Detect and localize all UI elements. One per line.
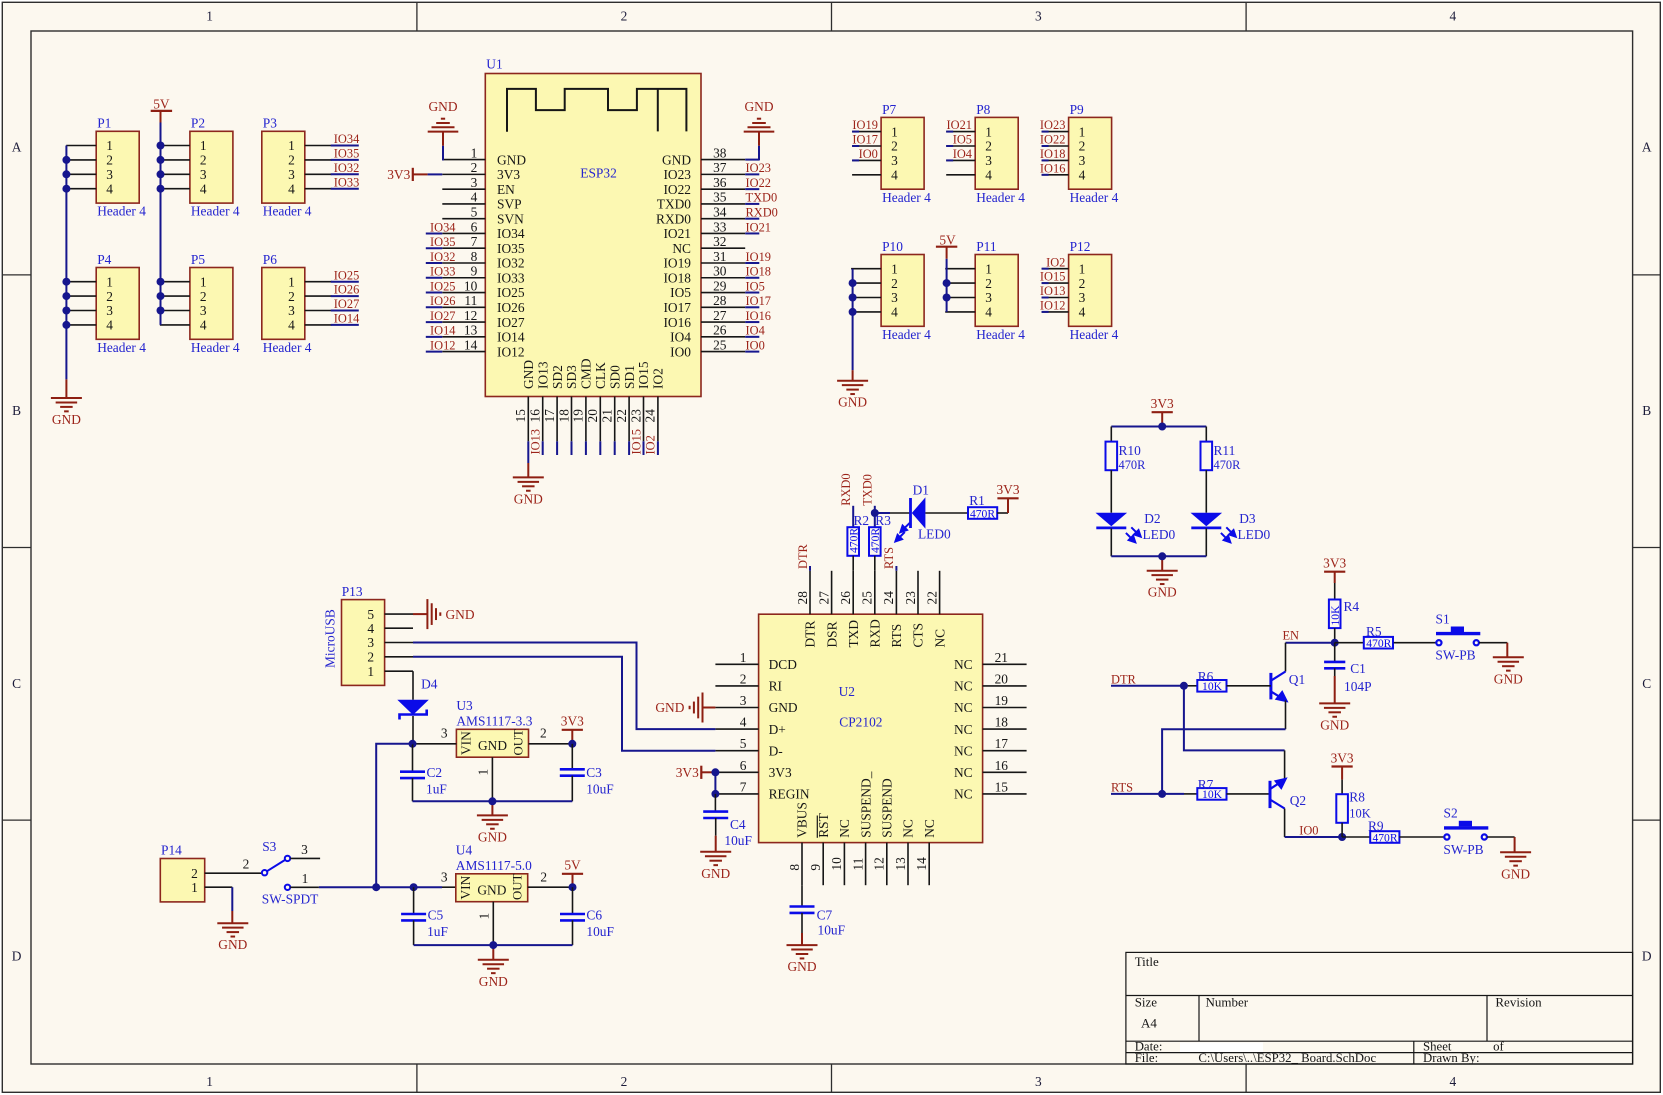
- net label IO14: [331, 324, 359, 326]
- net label TXD0: [745, 203, 759, 205]
- svg-text:Header 4: Header 4: [97, 340, 146, 355]
- P7 pin 2: [852, 145, 881, 147]
- svg-text:3: 3: [441, 726, 448, 741]
- switch S2 SW-PB: [1444, 834, 1487, 839]
- svg-text:24: 24: [881, 591, 896, 605]
- svg-text:NC: NC: [954, 743, 973, 758]
- svg-text:2: 2: [985, 139, 992, 154]
- junction dots P1-P4 bus: [62, 156, 70, 164]
- U4 pin 1 wire: [492, 902, 494, 945]
- svg-text:DTR: DTR: [803, 621, 818, 648]
- power port 3V3 at R1: [997, 497, 1018, 499]
- U2 pin 27 DSR: [831, 571, 833, 614]
- U1 pin 1 GND: [442, 159, 485, 161]
- svg-text:ESP32: ESP32: [580, 166, 616, 181]
- svg-text:P8: P8: [976, 102, 990, 117]
- transistor Q2: [1269, 781, 1272, 808]
- wire U1 pin15 to ground: [527, 441, 529, 463]
- wire stem to ground: [1161, 556, 1163, 570]
- svg-text:4: 4: [106, 318, 113, 333]
- svg-text:R3: R3: [875, 513, 891, 528]
- svg-text:IO12: IO12: [430, 338, 455, 352]
- U2 pin 5 D-: [715, 750, 758, 752]
- svg-text:GND: GND: [787, 959, 816, 974]
- S3 pin 1 wire: [290, 886, 319, 888]
- wire R5 to S1: [1394, 642, 1437, 644]
- svg-text:4: 4: [985, 168, 992, 183]
- svg-text:GND: GND: [497, 152, 526, 167]
- svg-text:C1: C1: [1350, 661, 1366, 676]
- svg-text:9: 9: [808, 864, 823, 871]
- svg-text:GND: GND: [838, 395, 867, 410]
- U1 pin 27 IO16: [701, 321, 745, 323]
- net label IO19: [852, 131, 859, 133]
- svg-text:TXD: TXD: [846, 620, 861, 648]
- wire stem red to ground: [852, 370, 854, 381]
- svg-text:4: 4: [106, 181, 113, 196]
- svg-text:1: 1: [302, 871, 309, 886]
- svg-text:IO34: IO34: [334, 132, 359, 146]
- svg-text:34: 34: [713, 204, 727, 219]
- svg-text:Header 4: Header 4: [263, 340, 312, 355]
- svg-text:20: 20: [585, 409, 600, 423]
- ground GND below P4: [51, 398, 82, 411]
- svg-text:29: 29: [713, 278, 727, 293]
- P5 pin 2: [160, 295, 190, 297]
- power port 3V3 at U1 pin2: [412, 168, 414, 181]
- svg-text:8: 8: [787, 864, 802, 871]
- svg-text:IO14: IO14: [497, 330, 525, 345]
- svg-text:SD3: SD3: [564, 365, 579, 389]
- transistor Q1: [1269, 673, 1272, 700]
- U2 pin 9 RST: [822, 843, 824, 886]
- svg-text:1: 1: [367, 664, 374, 679]
- svg-text:3V3: 3V3: [996, 482, 1019, 497]
- U1 pin 14 IO12: [442, 351, 485, 353]
- wire 5V bus P11: [946, 259, 948, 312]
- svg-text:IO16: IO16: [746, 309, 771, 323]
- svg-text:C7: C7: [817, 908, 833, 923]
- svg-text:GND: GND: [1148, 585, 1177, 600]
- junction dot U4 OUT: [569, 883, 577, 891]
- svg-text:27: 27: [816, 591, 831, 605]
- net label IO23: [1042, 131, 1049, 133]
- net label IO25: [426, 292, 443, 294]
- svg-text:CTS: CTS: [911, 623, 926, 648]
- svg-text:RI: RI: [769, 679, 782, 694]
- wire S3 to U4 VIN: [319, 886, 442, 888]
- ground GND below U4: [478, 960, 509, 973]
- svg-text:IO0: IO0: [859, 147, 878, 161]
- svg-text:2: 2: [540, 726, 547, 741]
- svg-text:NC: NC: [922, 819, 937, 838]
- svg-text:Revision: Revision: [1495, 994, 1542, 1009]
- P7 pin 4: [852, 174, 881, 176]
- wire P1-P4 ground bus: [65, 146, 67, 380]
- wire 5V bus P2-P5: [160, 123, 162, 325]
- svg-text:DTR: DTR: [1111, 673, 1137, 687]
- svg-text:U1: U1: [486, 57, 502, 72]
- svg-text:IO25: IO25: [497, 285, 525, 300]
- svg-text:1: 1: [106, 138, 113, 153]
- P13 pin 5: [385, 613, 413, 615]
- P3 pin 3: [305, 173, 332, 175]
- resistor R10: [1106, 442, 1118, 471]
- U2 pin 21 NC: [983, 663, 1027, 665]
- svg-text:GND: GND: [655, 700, 684, 715]
- svg-text:SUSPEND: SUSPEND: [880, 778, 895, 838]
- U2 pin 24 RTS: [895, 571, 897, 614]
- svg-text:2: 2: [367, 650, 374, 665]
- svg-text:IO16: IO16: [1040, 161, 1065, 175]
- svg-text:VBUS: VBUS: [795, 802, 810, 838]
- switch S1 SW-PB: [1436, 640, 1479, 645]
- svg-text:24: 24: [643, 409, 658, 423]
- svg-text:3: 3: [106, 167, 113, 182]
- svg-text:IO17: IO17: [852, 133, 877, 147]
- svg-text:4: 4: [891, 305, 898, 320]
- P8 pin 2: [946, 145, 975, 147]
- net label IO35: [331, 159, 359, 161]
- svg-text:P2: P2: [191, 116, 205, 131]
- P1 pin 1: [66, 145, 96, 147]
- resistor R9: [1342, 836, 1370, 838]
- P12 pin 4: [1042, 311, 1069, 313]
- svg-text:3: 3: [891, 153, 898, 168]
- wire to C4: [714, 794, 716, 812]
- net label IO27: [426, 321, 443, 323]
- svg-text:2: 2: [288, 289, 295, 304]
- connector P9: [1069, 117, 1112, 189]
- svg-text:10: 10: [829, 857, 844, 871]
- svg-text:8: 8: [471, 249, 478, 264]
- svg-text:D2: D2: [1144, 511, 1160, 526]
- U1 pin 37 IO23: [701, 173, 745, 175]
- svg-text:of: of: [1493, 1040, 1504, 1054]
- svg-text:IO32: IO32: [334, 161, 359, 175]
- U2 pin 4 D+: [715, 728, 758, 730]
- svg-text:RTS: RTS: [1111, 781, 1133, 795]
- svg-text:22: 22: [924, 591, 939, 604]
- svg-text:R11: R11: [1214, 443, 1236, 458]
- svg-text:2: 2: [471, 160, 478, 175]
- P14 pin 1: [205, 886, 233, 888]
- capacitor C1: [1334, 643, 1336, 662]
- U2 pin 14 NC: [928, 843, 930, 886]
- svg-text:IO34: IO34: [430, 220, 455, 234]
- op U3 AMS1117-3.3 body: [456, 729, 528, 757]
- svg-text:2: 2: [200, 153, 207, 168]
- svg-text:10uF: 10uF: [818, 923, 846, 938]
- svg-text:U3: U3: [456, 698, 473, 713]
- wire U2 pin3 to ground: [703, 707, 716, 709]
- svg-text:3V3: 3V3: [1151, 396, 1174, 411]
- wire P13 pin5 to ground: [413, 613, 427, 615]
- svg-text:P6: P6: [263, 252, 277, 267]
- resistor R11: [1201, 442, 1213, 471]
- svg-text:GND: GND: [428, 99, 457, 114]
- svg-text:10K: 10K: [1202, 788, 1223, 801]
- svg-text:CMD: CMD: [579, 358, 594, 389]
- svg-text:A: A: [12, 140, 22, 155]
- P4 pin 4: [66, 324, 96, 326]
- net label IO14: [426, 336, 443, 338]
- ground GND below C4: [700, 852, 731, 865]
- svg-text:35: 35: [713, 190, 727, 205]
- svg-text:GND: GND: [769, 700, 798, 715]
- U2 pin 13 NC: [907, 843, 909, 886]
- svg-text:AMS1117-3.3: AMS1117-3.3: [456, 714, 532, 729]
- wire stem to ground: [491, 801, 493, 815]
- P12 pin 3: [1042, 297, 1069, 299]
- wire stub: [542, 441, 544, 455]
- svg-text:GND: GND: [521, 360, 536, 389]
- svg-text:12: 12: [464, 308, 477, 323]
- net label IO35: [426, 247, 443, 249]
- connector P5: [190, 268, 233, 340]
- op U2 CP2102 body: [759, 614, 983, 842]
- svg-text:P14: P14: [161, 843, 182, 858]
- P14 pin 2: [205, 872, 262, 874]
- svg-text:NC: NC: [901, 819, 916, 838]
- resistor R6: [1197, 680, 1226, 692]
- svg-text:C:\Users\..\ESP32_ Board.SchDo: C:\Users\..\ESP32_ Board.SchDoc: [1198, 1051, 1376, 1065]
- capacitor C2: [412, 744, 414, 772]
- svg-text:IO26: IO26: [334, 283, 359, 297]
- P7 pin 1: [852, 131, 881, 133]
- svg-text:10K: 10K: [1329, 605, 1342, 626]
- wire D3 to bottom rail: [1205, 528, 1207, 556]
- net label IO33: [331, 188, 359, 190]
- wire GND to U1 pin38: [758, 132, 760, 146]
- connector P1: [96, 131, 139, 203]
- svg-text:25: 25: [860, 591, 875, 605]
- svg-text:470R: 470R: [1366, 637, 1391, 650]
- svg-text:1: 1: [985, 261, 992, 276]
- svg-text:P12: P12: [1070, 239, 1091, 254]
- U1 pin 26 IO4: [701, 336, 745, 338]
- net label IO0: [745, 351, 759, 353]
- svg-text:P13: P13: [342, 584, 363, 599]
- net label IO26: [331, 295, 359, 297]
- net label IO27: [331, 310, 359, 312]
- svg-text:LED0: LED0: [918, 526, 951, 541]
- svg-text:4: 4: [367, 621, 374, 636]
- U2 pin 23 CTS: [917, 571, 919, 614]
- net label IO25: [331, 281, 359, 283]
- svg-text:IO35: IO35: [497, 241, 525, 256]
- connector P7: [881, 117, 924, 189]
- U1 pin 4 SVP: [442, 203, 485, 205]
- svg-text:R2: R2: [854, 513, 870, 528]
- junction dot LED rail: [1158, 423, 1166, 431]
- power port 3V3 at R4: [1324, 571, 1345, 573]
- svg-text:21: 21: [600, 409, 615, 422]
- svg-text:IO0: IO0: [1299, 823, 1318, 837]
- svg-text:26: 26: [838, 591, 853, 605]
- wire R4 to EN node: [1334, 628, 1336, 643]
- svg-text:36: 36: [713, 175, 727, 190]
- svg-text:IO33: IO33: [334, 175, 359, 189]
- svg-text:470R: 470R: [1214, 458, 1242, 472]
- svg-text:2: 2: [106, 289, 113, 304]
- title block: [1126, 952, 1633, 1064]
- svg-text:U2: U2: [839, 684, 855, 699]
- svg-text:2: 2: [191, 866, 198, 881]
- svg-text:IO26: IO26: [430, 294, 455, 308]
- U2 pin 25 RXD: [874, 571, 876, 614]
- U3 pin 3 wire: [413, 743, 457, 745]
- P8 pin 4: [946, 174, 975, 176]
- svg-text:GND: GND: [1494, 671, 1523, 686]
- net label IO21: [745, 232, 759, 234]
- svg-text:DSR: DSR: [824, 621, 839, 647]
- svg-text:B: B: [12, 403, 21, 418]
- svg-text:Title: Title: [1135, 954, 1159, 969]
- ground GND below C1: [1319, 703, 1350, 716]
- svg-text:IO21: IO21: [746, 220, 771, 234]
- P9 pin 4: [1042, 174, 1069, 176]
- U1 pin 9 IO33: [442, 277, 485, 279]
- svg-text:4: 4: [740, 715, 747, 730]
- svg-text:NC: NC: [932, 629, 947, 648]
- wire stub: [571, 441, 573, 455]
- RST overbar: [816, 816, 818, 838]
- power port 3V3 at R8: [1332, 765, 1353, 767]
- svg-text:4: 4: [288, 181, 295, 196]
- svg-text:NC: NC: [954, 679, 973, 694]
- svg-text:1uF: 1uF: [426, 782, 447, 797]
- U2 pin 28 DTR: [809, 571, 811, 614]
- svg-text:IO4: IO4: [953, 147, 972, 161]
- wire stub: [585, 441, 587, 455]
- svg-text:U4: U4: [456, 843, 473, 858]
- svg-text:NC: NC: [837, 819, 852, 838]
- svg-text:D1: D1: [913, 482, 929, 497]
- junction dots P2-P5 bus: [157, 142, 165, 150]
- power port 3V3 at U3: [562, 729, 583, 731]
- U2 pin 1 DCD: [715, 663, 758, 665]
- svg-text:IO25: IO25: [334, 268, 359, 282]
- svg-text:SD1: SD1: [622, 365, 637, 389]
- svg-text:2: 2: [621, 9, 628, 24]
- U2 pin 17 NC: [983, 750, 1027, 752]
- svg-text:GND: GND: [478, 829, 507, 844]
- wire LED top rail: [1111, 426, 1206, 428]
- svg-text:17: 17: [995, 736, 1009, 751]
- svg-text:3: 3: [1035, 9, 1042, 24]
- svg-text:2: 2: [740, 671, 747, 686]
- U1 pin 23 IO15: [643, 397, 645, 442]
- svg-text:D: D: [12, 948, 22, 963]
- wire stem red to ground: [65, 379, 67, 398]
- svg-text:IO21: IO21: [663, 226, 691, 241]
- svg-text:GND: GND: [218, 937, 247, 952]
- svg-text:3: 3: [740, 693, 747, 708]
- U1 pin 13 IO14: [442, 336, 485, 338]
- diode D4 schottky: [397, 700, 429, 715]
- svg-text:NC: NC: [954, 787, 973, 802]
- net label IO4: [946, 159, 953, 161]
- svg-text:4: 4: [200, 181, 207, 196]
- svg-text:6: 6: [471, 219, 478, 234]
- P10 pin 1: [851, 268, 881, 270]
- svg-text:IO12: IO12: [497, 344, 525, 359]
- svg-text:Header 4: Header 4: [1070, 190, 1119, 205]
- svg-text:23: 23: [903, 591, 918, 605]
- svg-text:C: C: [12, 676, 21, 691]
- svg-text:P7: P7: [882, 102, 896, 117]
- junction dot TXD0-D1: [871, 509, 879, 517]
- svg-text:1: 1: [288, 138, 295, 153]
- wire R9 to S2: [1399, 836, 1444, 838]
- connector P8: [975, 117, 1018, 189]
- diode D3 LED: [1191, 513, 1223, 527]
- U1 pin 5 SVN: [442, 218, 485, 220]
- wire S2 to ground: [1487, 836, 1515, 838]
- U1 pin 2 3V3: [442, 173, 485, 175]
- svg-text:S3: S3: [262, 839, 276, 854]
- svg-text:IO2: IO2: [1046, 255, 1065, 269]
- U2 pin 10 NC: [843, 843, 845, 886]
- svg-text:VIN: VIN: [458, 875, 473, 899]
- connector P4: [96, 268, 139, 340]
- svg-text:SD2: SD2: [550, 365, 565, 389]
- svg-text:RST: RST: [816, 813, 831, 838]
- P12 pin 1: [1042, 268, 1069, 270]
- svg-text:RTS: RTS: [882, 547, 896, 569]
- svg-text:LED0: LED0: [1238, 527, 1271, 542]
- P11 pin 1: [945, 268, 975, 270]
- svg-text:IO16: IO16: [663, 315, 691, 330]
- power port 5V at U4: [562, 873, 583, 875]
- wire stub: [614, 441, 616, 455]
- svg-text:14: 14: [464, 337, 478, 352]
- svg-text:5V: 5V: [564, 858, 581, 873]
- svg-text:28: 28: [713, 293, 727, 308]
- svg-text:C5: C5: [428, 908, 444, 923]
- svg-text:4: 4: [288, 318, 295, 333]
- U1 pin 30 IO18: [701, 277, 745, 279]
- svg-text:B: B: [1642, 403, 1651, 418]
- P13 pin 2: [385, 656, 413, 658]
- P1 pin 4: [66, 188, 96, 190]
- svg-text:11: 11: [850, 858, 865, 871]
- svg-text:GND: GND: [479, 974, 508, 989]
- svg-text:IO27: IO27: [430, 309, 455, 323]
- U1 pin 21 SD0: [614, 397, 616, 442]
- wire VIN node to 5V switch rail: [376, 744, 412, 887]
- wire EN node: [1286, 642, 1335, 644]
- svg-text:2: 2: [288, 153, 295, 168]
- svg-text:23: 23: [628, 409, 643, 423]
- svg-text:S2: S2: [1444, 806, 1458, 821]
- P5 pin 1: [160, 281, 190, 283]
- net label IO34: [331, 145, 359, 147]
- svg-text:1: 1: [106, 274, 113, 289]
- U2 pin 20 NC: [983, 685, 1027, 687]
- svg-text:SW-PB: SW-PB: [1443, 842, 1483, 857]
- svg-text:38: 38: [713, 145, 727, 160]
- svg-text:C4: C4: [730, 817, 746, 832]
- P5 pin 4: [160, 324, 190, 326]
- wire R11 to D3: [1205, 470, 1207, 513]
- P4 pin 2: [66, 295, 96, 297]
- svg-text:R8: R8: [1349, 790, 1365, 805]
- svg-text:C6: C6: [586, 908, 602, 923]
- svg-text:3V3: 3V3: [1331, 750, 1354, 765]
- svg-text:1: 1: [191, 880, 198, 895]
